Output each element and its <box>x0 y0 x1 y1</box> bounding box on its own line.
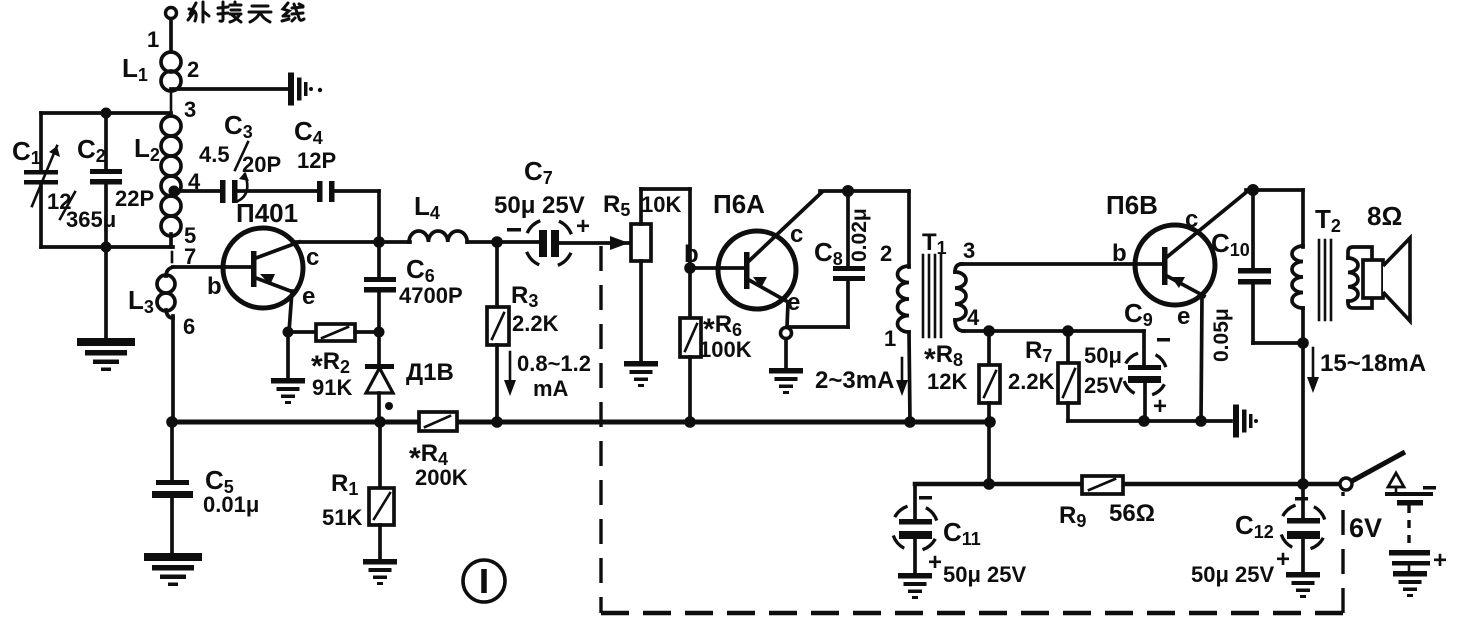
svg-text:4: 4 <box>967 305 980 330</box>
svg-text:10K: 10K <box>641 192 681 217</box>
svg-text:25V: 25V <box>1084 373 1123 398</box>
svg-text:2.2K: 2.2K <box>1008 369 1055 394</box>
svg-text:b: b <box>1112 240 1127 267</box>
svg-text:e: e <box>787 289 800 316</box>
svg-text:c: c <box>790 221 803 248</box>
svg-text:50μ 25V: 50μ 25V <box>943 562 1027 587</box>
svg-text:mA: mA <box>533 376 569 401</box>
svg-text:4: 4 <box>188 169 201 194</box>
svg-text:6V: 6V <box>1349 513 1382 543</box>
svg-text:+: + <box>928 549 942 576</box>
svg-text:12P: 12P <box>297 148 336 173</box>
svg-text:П401: П401 <box>236 198 298 228</box>
svg-text:20P: 20P <box>242 152 281 177</box>
svg-text:1: 1 <box>884 326 896 351</box>
svg-text:1: 1 <box>147 27 159 52</box>
svg-text:c: c <box>306 244 319 271</box>
svg-text:0.05μ: 0.05μ <box>1210 308 1233 362</box>
svg-text:+: + <box>1276 546 1290 573</box>
svg-text:b: b <box>684 241 699 268</box>
svg-text:c: c <box>1185 206 1198 233</box>
svg-text:6: 6 <box>183 314 195 339</box>
svg-text:3: 3 <box>963 238 975 263</box>
svg-text:50μ: 50μ <box>1084 343 1122 368</box>
svg-text:3: 3 <box>184 97 196 122</box>
svg-text:0.8~1.2: 0.8~1.2 <box>517 351 591 376</box>
svg-text:+: + <box>1153 393 1167 420</box>
svg-text:e: e <box>1177 303 1190 330</box>
svg-text:e: e <box>302 283 315 310</box>
svg-text:8Ω: 8Ω <box>1367 201 1402 231</box>
svg-text:0.02μ: 0.02μ <box>848 208 871 262</box>
svg-text:12K: 12K <box>927 369 967 394</box>
svg-text:2: 2 <box>187 57 199 82</box>
svg-text:50μ 25V: 50μ 25V <box>494 192 585 219</box>
svg-text:2~3mA: 2~3mA <box>815 367 894 394</box>
svg-text:100K: 100K <box>699 337 752 362</box>
svg-text:Д1В: Д1В <box>406 359 454 386</box>
svg-text:15~18mA: 15~18mA <box>1320 350 1426 377</box>
svg-text:365μ: 365μ <box>66 207 116 232</box>
svg-text:51K: 51K <box>322 505 362 530</box>
svg-text:П6А: П6А <box>713 189 765 219</box>
svg-text:П6В: П6В <box>1106 190 1158 220</box>
svg-text:200K: 200K <box>415 465 468 490</box>
svg-text:56Ω: 56Ω <box>1109 500 1155 527</box>
svg-text:+: + <box>1433 547 1447 574</box>
svg-text:+: + <box>576 213 590 240</box>
svg-text:22P: 22P <box>115 186 154 211</box>
svg-text:4.5: 4.5 <box>199 142 230 167</box>
svg-text:4700P: 4700P <box>399 283 463 308</box>
svg-text:7: 7 <box>184 244 196 269</box>
svg-text:0.01μ: 0.01μ <box>203 492 259 517</box>
svg-text:2.2K: 2.2K <box>512 311 559 336</box>
svg-text:91K: 91K <box>312 375 352 400</box>
svg-text:2: 2 <box>880 241 892 266</box>
svg-text:50μ 25V: 50μ 25V <box>1191 562 1275 587</box>
svg-text:b: b <box>207 273 222 300</box>
